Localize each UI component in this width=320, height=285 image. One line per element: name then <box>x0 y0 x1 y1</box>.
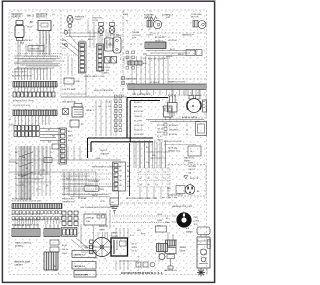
box with text B5 <box>84 214 106 225</box>
motor M1 evap fan <box>147 20 162 28</box>
svg-text:OR-18 FZ: OR-18 FZ <box>134 116 143 118</box>
svg-text:DOOR: DOOR <box>92 20 99 22</box>
node marks right of B5 <box>97 215 105 218</box>
connector column CC <box>59 128 67 164</box>
svg-text:WH-35: WH-35 <box>62 249 68 251</box>
svg-text:WH-14: WH-14 <box>178 54 184 56</box>
label left edge marks <box>10 118 12 197</box>
border frame outer <box>2 1 214 282</box>
connector block P2 row1 <box>13 92 55 97</box>
wire bus upper right <box>146 49 196 56</box>
relay PTC <box>196 96 201 100</box>
label top-middle tags <box>64 30 103 41</box>
label legend bottom <box>164 141 182 143</box>
svg-text:12 14: 12 14 <box>36 189 41 191</box>
svg-text:B2: B2 <box>148 178 150 180</box>
svg-text:VALVE: VALVE <box>180 250 187 253</box>
wire h mid lower <box>62 180 108 195</box>
svg-text:W. M.: W. M. <box>20 43 25 45</box>
svg-text:WTR: WTR <box>143 54 148 56</box>
wire h line y160 <box>61 158 121 160</box>
inline connector J4 <box>44 158 52 163</box>
svg-text:CAM SW 3-4: CAM SW 3-4 <box>74 265 86 268</box>
label line row <box>62 101 111 104</box>
label notes right <box>197 191 200 193</box>
svg-text:CUT-OUT: CUT-OUT <box>132 35 142 37</box>
wire drops to bar <box>132 56 168 84</box>
switch box S3 <box>84 186 99 192</box>
svg-text:EVAP: EVAP <box>123 13 129 16</box>
overload OL1 <box>189 96 194 100</box>
terminal squares row under J5 <box>12 211 61 220</box>
wire dark bundle left <box>21 146 30 200</box>
wire section divider upper right v <box>149 10 151 33</box>
scan noise texture <box>10 11 207 275</box>
label main control board <box>15 242 33 248</box>
svg-text:8: 8 <box>53 25 54 27</box>
label harness pt <box>182 34 195 37</box>
svg-text:YL-12 FF: YL-12 FF <box>134 120 142 122</box>
svg-text:PWR DISTRIBUTION: PWR DISTRIBUTION <box>132 94 151 96</box>
inline connector J1 <box>28 46 44 52</box>
svg-text:BU-16 DEF: BU-16 DEF <box>134 111 144 113</box>
label R2 <box>112 21 129 23</box>
svg-text:T2: T2 <box>104 259 106 261</box>
svg-text:MOTOR 1RPH: MOTOR 1RPH <box>76 274 89 276</box>
svg-text:GROUND: GROUND <box>188 166 197 168</box>
wire h y160 left part <box>9 159 61 161</box>
svg-text:RUN 15: RUN 15 <box>157 132 163 134</box>
label harness row <box>172 205 193 208</box>
svg-text:P9: P9 <box>50 152 52 154</box>
wire stub left edge y125 <box>9 124 14 126</box>
svg-text:GY-14 CND: GY-14 CND <box>134 125 144 127</box>
svg-text:BK WH BU OR YL GY RD: BK WH BU OR YL GY RD <box>13 101 35 103</box>
wire right verticals under table <box>134 140 165 168</box>
label above bar <box>150 81 186 85</box>
label pin labels P1 <box>12 72 32 78</box>
water valve WV1 <box>166 240 177 269</box>
relay box RB <box>72 224 88 250</box>
connector pin column left pair <box>115 95 122 132</box>
svg-text:PWR: PWR <box>194 217 199 219</box>
label terminal row <box>30 22 34 24</box>
svg-text:A3: A3 <box>140 183 142 186</box>
label wire colors row1 <box>22 40 32 42</box>
label part number <box>121 272 163 275</box>
svg-text:GY 14: GY 14 <box>40 170 45 172</box>
wire verticals into combs <box>15 218 59 224</box>
svg-text:SEE TECH: SEE TECH <box>184 158 194 160</box>
connector block CB2 <box>126 51 148 69</box>
wire verticals lamps down <box>90 30 114 48</box>
svg-text:A1: A1 <box>140 171 142 174</box>
emblem starburst <box>197 269 205 277</box>
svg-text:K3: K3 <box>81 124 83 126</box>
label long row y207 <box>80 206 115 209</box>
svg-text:B3: B3 <box>148 184 150 186</box>
svg-text:L1 N: L1 N <box>106 102 111 104</box>
svg-text:DRAIN HTR: DRAIN HTR <box>30 48 40 51</box>
svg-text:HTR 450W: HTR 450W <box>168 40 177 42</box>
defrost timer motor TM1 <box>93 238 112 257</box>
svg-text:RUN CAP 15 MFD: RUN CAP 15 MFD <box>148 58 164 61</box>
svg-text:120/16: 120/16 <box>112 236 118 238</box>
svg-text:1 2 3 4 5 6 7 8 9: 1 2 3 4 5 6 7 8 9 <box>12 72 27 74</box>
label right of T2 <box>137 230 146 236</box>
svg-text:B1: B1 <box>148 172 150 174</box>
svg-text:BK-33: BK-33 <box>62 245 67 247</box>
svg-text:GRN-YL: GRN-YL <box>100 150 108 152</box>
svg-text:WIRE COLOR CODE: WIRE COLOR CODE <box>164 141 182 143</box>
label mid col rows <box>132 244 138 253</box>
label small under transformer <box>84 75 105 78</box>
wire bus to right mid <box>40 129 61 144</box>
svg-text:HARNESS-MAIN: HARNESS-MAIN <box>14 261 30 264</box>
transformer T1 <box>105 57 117 64</box>
wire h-lines y150-158 right <box>146 152 170 158</box>
relay K4 with pins <box>164 106 173 120</box>
svg-text:THERMISTOR: THERMISTOR <box>62 202 75 204</box>
label left col rows2 <box>62 245 68 255</box>
wire vertical drops to header <box>15 68 50 80</box>
svg-text:BU-3: BU-3 <box>68 140 72 142</box>
note box NB <box>188 146 201 156</box>
wire h left lower <box>14 174 52 182</box>
svg-text:HARNESS-PT LIGHT: HARNESS-PT LIGHT <box>168 81 186 84</box>
label wire tags left <box>15 152 28 170</box>
label under fan rows <box>155 37 165 43</box>
svg-text:BK 12: BK 12 <box>132 244 137 246</box>
label box LB1 <box>72 251 96 258</box>
connector strip CS1 <box>113 162 131 191</box>
switch S4 door capsule <box>108 35 121 54</box>
svg-text:FRESH FOOD: FRESH FOOD <box>62 199 75 201</box>
label thermostat block <box>62 199 75 204</box>
wire dashed v bottom <box>138 256 140 275</box>
svg-text:HARNESS-PWR CORD: HARNESS-PWR CORD <box>172 205 193 208</box>
node junction dot <box>65 44 68 47</box>
icemaker assembly <box>197 227 211 268</box>
wire h runs upper-left <box>14 56 58 68</box>
svg-text:RIBBON CABLE 9 COND: RIBBON CABLE 9 COND <box>84 75 105 78</box>
connector block P4 grid <box>14 126 39 137</box>
label y107 tags <box>98 106 112 108</box>
svg-text:ACME-XX WATTS: ACME-XX WATTS <box>182 116 198 119</box>
svg-text:WH-14 N: WH-14 N <box>134 107 142 109</box>
label below bar <box>132 94 151 96</box>
label relay K2 <box>86 109 95 112</box>
wire bold bus N vertical drop <box>90 142 92 152</box>
svg-text:4: 4 <box>58 273 59 275</box>
svg-text:WH-2: WH-2 <box>68 136 73 138</box>
wire drops below P3 <box>15 116 49 126</box>
svg-text:B4: B4 <box>120 180 122 182</box>
svg-text:GND: GND <box>76 81 81 83</box>
svg-text:SEC 16V: SEC 16V <box>101 70 110 72</box>
defrost thermostat DT1 <box>15 21 24 47</box>
label made in usa <box>14 261 30 267</box>
label water valve <box>180 246 187 253</box>
label right col rows <box>148 58 164 61</box>
label right col y56 <box>166 56 173 58</box>
label tags mid y190 <box>66 178 104 191</box>
label near donut left <box>166 218 170 224</box>
terminal box TB1 <box>64 78 81 84</box>
svg-text:B3: B3 <box>120 175 122 177</box>
label x50-60 y146 <box>50 152 52 154</box>
svg-text:DISPLAY: DISPLAY <box>86 217 95 220</box>
svg-text:M: M <box>192 105 194 108</box>
svg-text:HTR: HTR <box>166 17 171 19</box>
svg-text:B2: B2 <box>120 171 122 173</box>
connector comb CN2 <box>44 224 60 237</box>
svg-text:D1: D1 <box>164 172 166 174</box>
wire drops below bar y90 <box>134 90 199 96</box>
svg-text:GND: GND <box>96 158 101 160</box>
svg-text:D2: D2 <box>164 178 166 180</box>
wire v x93.5 <box>93 226 95 241</box>
svg-text:N-WH: N-WH <box>157 220 163 222</box>
svg-text:12: 12 <box>186 125 188 127</box>
svg-text:XFMR: XFMR <box>112 233 118 235</box>
wire dotted L1 to cord <box>112 215 170 217</box>
svg-text:MOTOR: MOTOR <box>191 17 199 19</box>
svg-text:WH WHITE: WH WHITE <box>169 130 179 132</box>
svg-text:1 2 3 4 5 6 7 8 9 10 11 12 13: 1 2 3 4 5 6 7 8 9 10 11 12 13 14 15 <box>12 201 41 203</box>
wire pair to legend <box>146 120 204 122</box>
svg-text:CAM SW 1-2: CAM SW 1-2 <box>74 254 85 257</box>
start device SD1 <box>168 95 178 116</box>
label notes row2 <box>184 176 199 181</box>
svg-text:16: 16 <box>186 134 188 136</box>
wire bold bus L1 vertical drop <box>87 138 89 158</box>
svg-text:115V: 115V <box>194 224 199 226</box>
svg-text:14: 14 <box>186 130 188 132</box>
label under timer <box>84 248 90 250</box>
wire bold ground drop <box>110 143 130 205</box>
svg-text:LIGHT: LIGHT <box>75 19 82 21</box>
svg-text:OR YL: OR YL <box>34 179 39 181</box>
svg-text:MAIN CONTROL: MAIN CONTROL <box>15 242 33 245</box>
svg-text:NOTE: ALL: NOTE: ALL <box>168 147 178 150</box>
label small WH <box>27 16 35 18</box>
svg-text:CABINET: CABINET <box>14 264 24 267</box>
label mid text block <box>132 32 142 40</box>
svg-text:BOARD: BOARD <box>15 245 23 248</box>
svg-text:BK WH BU OR YL GY RD TN PK VT: BK WH BU OR YL GY RD TN PK VT <box>12 214 44 216</box>
label compressor bottom <box>182 116 198 119</box>
connector header P1 bar <box>13 82 57 88</box>
svg-text:CIRCUIT: CIRCUIT <box>188 169 196 171</box>
connector header J5 bar <box>12 204 62 209</box>
svg-text:NOTE 1: NOTE 1 <box>188 163 195 165</box>
wire drops from relay <box>40 34 49 55</box>
wire dashed h y170 mid <box>62 169 109 171</box>
svg-text:BK-1: BK-1 <box>68 131 72 133</box>
wire mid verticals y146-160 <box>62 146 80 160</box>
svg-text:16171061 P/N 756 W KSS W- U-: 16171061 P/N 756 W KSS W- U- S- A- <box>121 272 163 275</box>
svg-text:SW-2: SW-2 <box>62 44 66 46</box>
label cord wires <box>157 214 163 228</box>
svg-text:HARNESS-ICE: HARNESS-ICE <box>164 269 178 272</box>
connector comb CN1 <box>12 224 40 237</box>
wire dashed diagonal <box>146 33 170 38</box>
svg-text:N.C.: N.C. <box>108 106 112 108</box>
switch S2 tall <box>105 38 114 51</box>
label dark block y196 <box>78 197 86 200</box>
label wire list row3 <box>14 225 29 227</box>
connector block P2 row2 <box>13 101 35 108</box>
label right mid extra <box>164 57 168 60</box>
label dense row y199 <box>12 199 31 201</box>
relay K2 <box>72 104 83 118</box>
dotted table legend2 <box>138 168 170 187</box>
label CC pin rows <box>68 131 73 142</box>
wire verticals top-left drops <box>20 44 50 56</box>
label row above J5 <box>12 201 41 203</box>
label evap fan <box>144 14 168 20</box>
wire verticals top-left y33-44 <box>40 34 50 44</box>
svg-text:BK WH BU OR GY RD: BK WH BU OR GY RD <box>12 76 32 78</box>
label freezer light <box>75 17 85 22</box>
wire dotted N to cord <box>112 222 170 224</box>
solenoid SOL1 <box>157 244 168 260</box>
label wire list mid-right col <box>134 102 144 136</box>
compressor dashed box <box>168 95 206 118</box>
legend row 1 <box>164 123 188 127</box>
inline connector J9 <box>196 50 202 56</box>
label notes row1 <box>188 163 197 175</box>
wire solenoid leads <box>159 252 165 262</box>
label plug right <box>194 217 200 226</box>
svg-text:WH 12: WH 12 <box>27 16 35 18</box>
label left col x120 <box>120 51 121 61</box>
wire dash-dot chassis <box>120 202 176 204</box>
label mid lower tags <box>64 188 98 199</box>
wire diagonals light <box>62 35 80 56</box>
lamp L1 freezer light <box>64 15 73 36</box>
label adaptive defrost ctrl <box>36 13 48 19</box>
svg-text:GY 16: GY 16 <box>132 251 137 253</box>
label box LB3 <box>74 271 96 278</box>
label box LB2 <box>72 262 96 270</box>
svg-text:BK WH BU OR YL GY RD TN PK: BK WH BU OR YL GY RD TN PK <box>12 225 39 227</box>
svg-text:P7: P7 <box>40 175 42 177</box>
svg-text:MAKER: MAKER <box>186 231 193 234</box>
svg-text:N.O.: N.O. <box>98 106 102 108</box>
label row y166 <box>92 166 122 169</box>
label defrost heater <box>12 14 24 19</box>
svg-text:HTR: HTR <box>137 230 142 232</box>
svg-text:BK: BK <box>30 22 34 24</box>
wire mesh mid-left y172-196 <box>62 172 116 197</box>
svg-text:3: 3 <box>120 59 121 61</box>
svg-text:THERM: THERM <box>132 32 139 34</box>
svg-text:WTR: WTR <box>141 234 146 236</box>
wire verticals y172-210 <box>64 172 79 196</box>
label row y26 topleft <box>27 27 32 29</box>
wire section boundary y97 <box>61 96 127 98</box>
inline connector J10 <box>156 226 167 232</box>
svg-text:C2: C2 <box>156 178 158 180</box>
svg-text:LT-1: LT-1 <box>62 48 65 50</box>
wire right verticals y56-79 more <box>124 56 130 64</box>
compressor motor COMP <box>187 99 201 113</box>
wire v x105 <box>104 232 106 239</box>
svg-text:BK-8: BK-8 <box>62 40 66 42</box>
svg-text:LOW VOLTAGE: LOW VOLTAGE <box>62 88 76 91</box>
inline connector J6 <box>50 240 59 245</box>
wire from thermostat <box>17 46 19 70</box>
wire dotted h runs mid-lower <box>62 174 116 194</box>
wire section divider freezer left <box>60 10 62 97</box>
label aux right <box>142 25 143 31</box>
capacitor C2 run <box>203 100 207 112</box>
wire T2 leads <box>116 228 128 270</box>
svg-text:P8: P8 <box>46 185 48 187</box>
svg-text:J2 J3: J2 J3 <box>100 201 105 203</box>
resistor R3 zigzag <box>146 17 157 22</box>
svg-text:CLASS 2: CLASS 2 <box>101 72 110 75</box>
svg-text:CONN A4: CONN A4 <box>78 197 86 200</box>
terminal boxes bottom <box>136 262 155 267</box>
svg-text:RELAY 1: RELAY 1 <box>86 109 95 112</box>
svg-text:C1: C1 <box>156 172 158 174</box>
inline connector J7 <box>50 247 59 252</box>
wire bold vertical pair right <box>127 98 130 143</box>
label above bus right <box>130 44 150 46</box>
label topmid rows y44 <box>62 40 76 55</box>
wire thin verticals mid <box>96 100 116 136</box>
svg-text:MICROPROCESSOR BOARD CONN: MICROPROCESSOR BOARD CONN <box>126 197 158 200</box>
svg-text:PRI 120V: PRI 120V <box>101 67 110 69</box>
svg-text:TIMER: TIMER <box>99 230 106 232</box>
legend row 2 <box>164 128 188 132</box>
wire water valve leads <box>168 232 173 240</box>
label right of fan <box>166 15 174 20</box>
svg-text:WATER VLV: WATER VLV <box>126 78 137 81</box>
label tags x150 y150 <box>146 147 155 164</box>
label wire list row2 <box>12 220 44 222</box>
fuse F1 box-x <box>63 109 69 115</box>
label under table <box>126 197 158 200</box>
wire section divider h y33 right <box>150 32 207 34</box>
label dense block right <box>157 125 164 141</box>
legend row 3 <box>164 132 188 136</box>
connector column CA <box>79 42 87 73</box>
wire verticals topmid to cols <box>80 40 102 50</box>
svg-text:HEATER: HEATER <box>12 16 21 19</box>
relay K3 small <box>70 120 83 127</box>
motor M2 cond fan <box>193 21 206 29</box>
label top-left extra tag <box>52 14 55 27</box>
lamp L2 <box>98 23 104 34</box>
border frame inner dashed <box>9 10 207 275</box>
label row y90 <box>94 89 114 92</box>
wire icemaker leads <box>199 235 207 275</box>
receptacle symbol <box>176 185 195 195</box>
svg-text:2: 2 <box>120 55 121 57</box>
svg-text:SW: SW <box>100 35 103 37</box>
label rows with squares <box>122 77 138 86</box>
wire compressor leads <box>172 84 200 96</box>
svg-text:L1: L1 <box>130 44 132 46</box>
svg-text:L1-BK: L1-BK <box>157 214 163 216</box>
connector column CB <box>97 44 104 71</box>
label tiny under J5 rows <box>12 225 39 227</box>
label diag tags <box>16 175 41 191</box>
